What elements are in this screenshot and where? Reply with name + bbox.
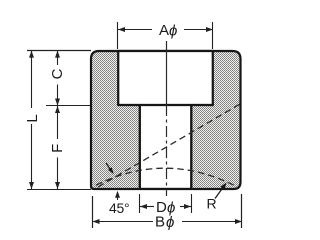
svg-text:F: F bbox=[49, 144, 66, 153]
svg-text:L: L bbox=[24, 114, 41, 122]
svg-text:ϕ: ϕ bbox=[166, 214, 174, 231]
svg-text:A: A bbox=[159, 22, 169, 39]
svg-text:B: B bbox=[155, 214, 165, 231]
svg-text:45°: 45° bbox=[109, 200, 129, 216]
svg-text:C: C bbox=[49, 68, 66, 79]
svg-text:ϕ: ϕ bbox=[169, 23, 177, 40]
